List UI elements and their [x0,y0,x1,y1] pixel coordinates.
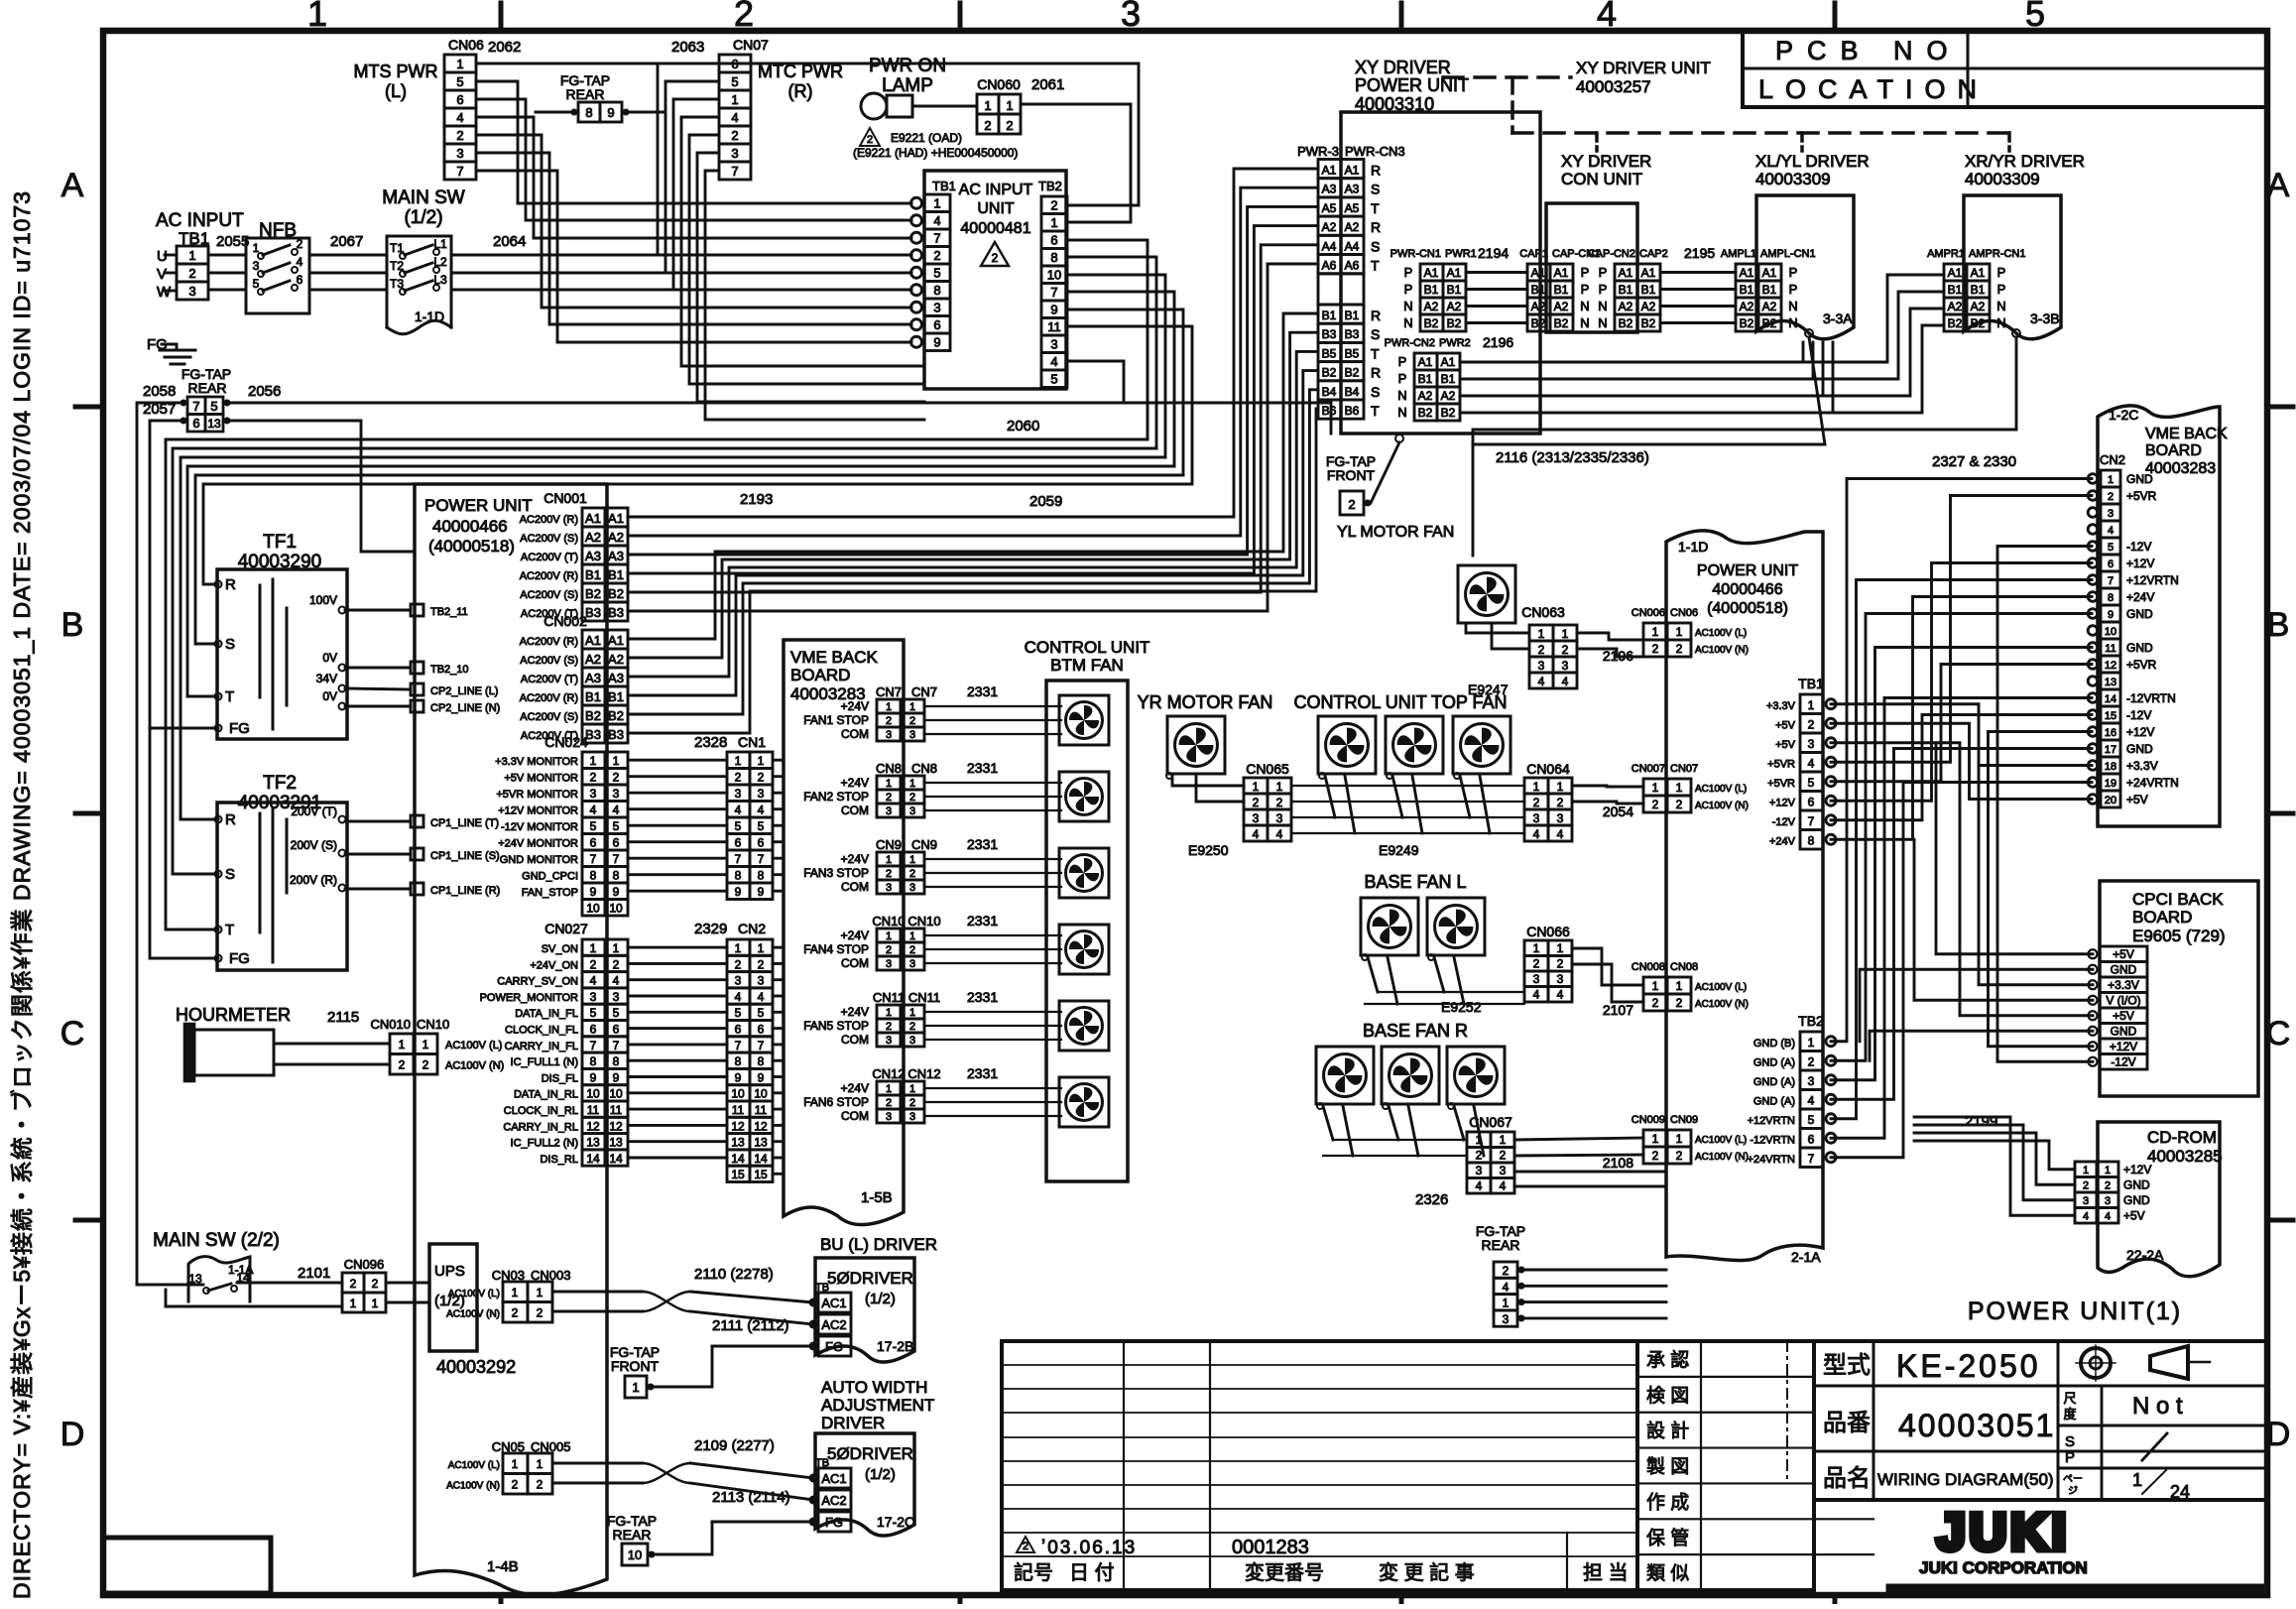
svg-text:CN001: CN001 [544,490,587,506]
svg-text:N: N [1598,299,1607,313]
svg-text:TB2_11: TB2_11 [430,606,468,618]
svg-text:CP2_LINE (L): CP2_LINE (L) [430,685,498,697]
svg-text:CN065: CN065 [1246,761,1289,777]
svg-text:B2: B2 [1447,316,1462,330]
svg-text:1: 1 [1253,780,1260,794]
svg-text:3: 3 [2108,508,2114,520]
svg-text:T: T [1371,345,1380,361]
svg-text:CN10: CN10 [417,1017,449,1032]
svg-text:A: A [61,167,84,204]
svg-text:3: 3 [2105,1195,2111,1207]
svg-text:UPS: UPS [434,1263,465,1280]
svg-text:2: 2 [886,944,892,956]
svg-text:3: 3 [1562,659,1569,673]
svg-text:9: 9 [758,1070,765,1084]
svg-text:3: 3 [758,787,765,801]
svg-text:COM: COM [841,1109,869,1123]
svg-text:10: 10 [586,902,600,916]
svg-text:B2: B2 [1345,366,1360,380]
svg-text:CAP1: CAP1 [1519,248,1548,260]
svg-text:3: 3 [1503,1312,1510,1326]
svg-text:B1: B1 [1345,309,1360,322]
svg-text:記号: 記号 [1014,1561,1053,1584]
svg-text:+24VRTN: +24VRTN [1748,1154,1795,1166]
svg-text:A2: A2 [1762,300,1777,313]
svg-text:-12V: -12V [2111,1055,2135,1069]
svg-text:A1: A1 [585,511,601,526]
svg-text:+12VRTN: +12VRTN [2126,573,2179,587]
svg-text:2: 2 [590,771,597,785]
svg-text:3: 3 [731,146,738,161]
svg-text:2: 2 [933,248,940,263]
svg-text:AMPR-CN1: AMPR-CN1 [1969,248,2025,260]
svg-text:A2: A2 [1424,300,1439,313]
svg-text:B: B [2267,606,2290,644]
svg-text:型式: 型式 [1823,1352,1871,1379]
svg-text:3: 3 [1533,811,1540,825]
svg-text:1: 1 [933,196,940,211]
svg-text:9: 9 [735,1070,742,1084]
svg-text:B1: B1 [1641,283,1656,297]
svg-text:4: 4 [735,990,742,1004]
svg-text:13: 13 [586,1136,600,1150]
svg-text:VME BACK: VME BACK [2145,426,2228,442]
svg-text:AC1: AC1 [821,1296,846,1310]
svg-text:WIRING DIAGRAM(50): WIRING DIAGRAM(50) [1877,1470,2054,1489]
svg-text:(1/2): (1/2) [404,207,442,228]
svg-text:16: 16 [2105,727,2116,739]
svg-text:AC200V (R): AC200V (R) [520,692,578,704]
svg-text:+5V: +5V [2113,947,2134,961]
svg-text:P: P [1404,265,1413,280]
svg-text:3: 3 [1538,659,1545,673]
svg-text:1: 1 [1676,781,1683,795]
svg-text:2060: 2060 [1007,418,1039,434]
svg-text:3: 3 [590,787,597,801]
svg-text:8: 8 [735,869,742,883]
svg-text:40003285: 40003285 [2147,1147,2223,1166]
svg-text:TF1: TF1 [263,532,297,553]
svg-text:AC INPUT: AC INPUT [156,210,244,231]
svg-text:R: R [1371,308,1381,323]
svg-text:+5V: +5V [1775,739,1796,751]
svg-text:1: 1 [886,854,892,866]
svg-text:11: 11 [587,1103,600,1117]
svg-text:3: 3 [1557,811,1564,825]
svg-text:T: T [225,688,234,705]
svg-text:2: 2 [735,957,742,971]
svg-text:P: P [1398,354,1407,369]
svg-text:5: 5 [210,399,217,414]
svg-text:2: 2 [1652,1149,1659,1163]
svg-text:IC_FULL1 (N): IC_FULL1 (N) [511,1056,578,1068]
svg-text:34V: 34V [316,672,337,685]
svg-text:GND: GND [2126,472,2153,486]
svg-text:2056: 2056 [248,383,281,400]
svg-text:A2: A2 [585,530,601,545]
svg-text:E9221 (OAD): E9221 (OAD) [891,131,962,145]
svg-text:6: 6 [613,1023,620,1037]
svg-text:1: 1 [537,1457,544,1471]
svg-text:V: V [157,266,167,283]
svg-text:9: 9 [607,105,614,120]
svg-text:2: 2 [1652,642,1659,656]
svg-text:2: 2 [423,1058,429,1072]
svg-text:8: 8 [1808,834,1815,848]
svg-text:D: D [2266,1416,2291,1453]
svg-text:2: 2 [1006,118,1013,133]
svg-text:A2: A2 [1441,389,1456,403]
svg-text:B2: B2 [1641,316,1656,330]
svg-text:6: 6 [758,836,765,850]
svg-text:2062: 2062 [488,39,521,56]
svg-text:CN006: CN006 [1631,607,1665,619]
svg-text:作 成: 作 成 [1646,1491,1689,1513]
svg-text:3: 3 [1533,972,1540,986]
svg-text:3: 3 [1476,1164,1483,1177]
svg-text:CAP-CN2: CAP-CN2 [1588,248,1635,260]
svg-text:9: 9 [2108,609,2114,621]
svg-text:2: 2 [512,1478,519,1492]
svg-text:4: 4 [1253,827,1260,841]
svg-text:+5VR: +5VR [1767,778,1795,790]
svg-text:A2: A2 [608,530,624,545]
svg-text:FG: FG [229,950,250,967]
svg-text:+12V: +12V [1769,798,1796,809]
svg-text:CARRY_IN_RL: CARRY_IN_RL [503,1121,578,1133]
svg-text:1: 1 [613,754,620,768]
svg-text:12: 12 [754,1119,768,1133]
svg-text:(R): (R) [788,81,813,101]
svg-text:AC100V (N): AC100V (N) [1695,645,1749,656]
svg-text:T: T [225,922,234,938]
svg-text:PWR1: PWR1 [1445,248,1477,260]
svg-text:GND: GND [2111,963,2137,977]
svg-text:3: 3 [1276,811,1283,825]
svg-text:A2: A2 [585,652,601,667]
svg-text:+12V: +12V [2110,1040,2137,1053]
svg-text:2: 2 [886,792,892,804]
svg-text:3: 3 [909,958,915,970]
svg-text:8: 8 [613,1054,620,1068]
svg-text:2: 2 [909,944,915,956]
svg-text:PCB NO: PCB NO [1775,36,1962,65]
svg-text:6: 6 [590,1023,597,1037]
svg-text:CN002: CN002 [544,613,587,629]
svg-text:5: 5 [2108,542,2114,554]
svg-text:A2: A2 [1447,300,1462,313]
svg-text:CARRY_IN_FL: CARRY_IN_FL [505,1041,578,1052]
svg-text:TB2_10: TB2_10 [430,664,469,676]
svg-text:7: 7 [456,164,463,179]
svg-text:40003257: 40003257 [1576,77,1651,96]
svg-text:P: P [1398,371,1407,386]
svg-text:A3: A3 [585,549,601,563]
svg-text:AC100V (N): AC100V (N) [1695,801,1749,811]
svg-text:AC100V (L): AC100V (L) [448,1289,500,1300]
svg-text:AC100V (L): AC100V (L) [1695,982,1747,993]
svg-text:GND_CPCI: GND_CPCI [522,871,578,883]
svg-text:2: 2 [1533,796,1540,809]
svg-text:8: 8 [758,869,765,883]
svg-text:CN8: CN8 [911,761,937,776]
svg-text:AC100V (N): AC100V (N) [1695,1152,1749,1163]
svg-text:3: 3 [1808,737,1815,751]
svg-text:1: 1 [758,941,765,955]
svg-text:5: 5 [590,1006,597,1020]
svg-text:CONTROL UNIT: CONTROL UNIT [1025,638,1150,657]
svg-text:B1: B1 [608,689,624,704]
svg-text:7: 7 [590,1039,597,1052]
svg-text:3: 3 [886,882,892,894]
svg-text:-12VRTN: -12VRTN [1750,1135,1795,1147]
svg-text:13: 13 [2105,677,2116,688]
svg-text:(1/2): (1/2) [865,1291,896,1307]
svg-text:2: 2 [1557,796,1564,809]
svg-text:C: C [2266,1015,2291,1052]
svg-text:17-2C: 17-2C [877,1514,914,1530]
svg-text:5: 5 [2025,0,2045,34]
svg-text:B5: B5 [1345,346,1360,360]
svg-text:CN027: CN027 [544,921,588,936]
svg-text:4: 4 [1597,0,1617,34]
svg-text:CN07: CN07 [1670,763,1698,775]
svg-text:14: 14 [609,1152,623,1166]
svg-text:15: 15 [731,1168,745,1181]
svg-text:6: 6 [2108,558,2114,570]
svg-text:24: 24 [2170,1482,2190,1502]
svg-text:3: 3 [735,787,742,801]
svg-text:GND: GND [2123,1178,2150,1192]
svg-text:B1: B1 [1619,283,1633,297]
svg-text:VME BACK: VME BACK [790,648,879,667]
svg-text:2194: 2194 [1478,245,1509,261]
svg-text:1: 1 [886,1007,892,1019]
svg-text:D: D [60,1416,85,1453]
svg-text:A3: A3 [1345,183,1360,196]
svg-text:MAIN SW (2/2): MAIN SW (2/2) [153,1230,280,1251]
svg-text:1: 1 [2083,1165,2089,1176]
svg-text:CN9: CN9 [911,837,937,852]
svg-text:N: N [1397,405,1406,420]
svg-text:2327 & 2330: 2327 & 2330 [1932,453,2016,470]
svg-text:2: 2 [734,0,754,34]
svg-text:CN060: CN060 [977,76,1021,92]
svg-text:検 図: 検 図 [1646,1385,1689,1407]
svg-text:R: R [225,576,236,593]
svg-text:9: 9 [735,885,742,899]
svg-text:2: 2 [350,1277,357,1291]
svg-text:CN024: CN024 [544,734,588,750]
svg-text:ペー: ペー [2063,1474,2083,1485]
svg-text:DIS_FL: DIS_FL [542,1072,578,1084]
svg-text:1: 1 [909,1007,915,1019]
svg-text:12: 12 [2105,660,2116,672]
svg-text:R: R [1371,163,1381,179]
svg-text:1: 1 [512,1457,519,1471]
svg-text:CN1: CN1 [738,734,766,750]
svg-text:PWR-CN3: PWR-CN3 [1345,144,1405,159]
svg-text:2: 2 [613,957,620,971]
svg-text:6: 6 [933,317,940,332]
svg-text:4: 4 [1808,1094,1815,1108]
svg-text:HOURMETER: HOURMETER [176,1005,291,1025]
svg-text:S: S [225,866,235,883]
svg-text:B2: B2 [1322,366,1337,380]
svg-text:4: 4 [1557,988,1564,1002]
svg-text:AC200V (S): AC200V (S) [520,533,578,545]
svg-text:T: T [1371,258,1380,274]
svg-text:REAR: REAR [1482,1237,1520,1253]
svg-text:1: 1 [1652,781,1659,795]
svg-text:+24V: +24V [841,699,869,713]
svg-text:A1: A1 [608,633,624,648]
svg-text:AC2: AC2 [821,1493,846,1508]
svg-text:N: N [1580,299,1589,313]
svg-text:POWER UNIT(1): POWER UNIT(1) [1968,1298,2182,1325]
svg-text:承 認: 承 認 [1646,1349,1689,1371]
svg-text:7: 7 [933,231,940,246]
svg-text:4: 4 [1562,675,1569,688]
svg-text:保 管: 保 管 [1646,1527,1689,1548]
svg-text:2054: 2054 [1603,804,1633,819]
svg-text:1: 1 [512,1286,519,1300]
svg-text:AC100V (L): AC100V (L) [1695,1135,1747,1146]
svg-text:1: 1 [1533,941,1540,955]
svg-text:CP1_LINE (S): CP1_LINE (S) [430,850,500,862]
svg-text:1: 1 [1676,1132,1683,1146]
svg-text:1: 1 [984,98,991,113]
svg-text:B1: B1 [1762,283,1777,297]
svg-text:6: 6 [297,273,303,287]
svg-text:ジ: ジ [2068,1486,2078,1497]
svg-text:2107: 2107 [1603,1002,1633,1018]
svg-text:+3.3V: +3.3V [2108,978,2139,992]
svg-text:8: 8 [1050,250,1057,265]
svg-text:2: 2 [735,771,742,785]
svg-text:2: 2 [399,1058,406,1072]
svg-text:7: 7 [2108,575,2114,587]
svg-text:2: 2 [1348,497,1355,512]
svg-text:13: 13 [207,417,221,431]
svg-text:2: 2 [297,237,303,251]
svg-text:2331: 2331 [967,760,998,776]
svg-text:REAR: REAR [613,1527,652,1543]
svg-text:2: 2 [1276,796,1283,809]
svg-text:AUTO WIDTH: AUTO WIDTH [821,1378,927,1397]
svg-text:1-4B: 1-4B [487,1558,519,1575]
svg-text:3-3B: 3-3B [2030,310,2060,326]
svg-text:+5VR MONITOR: +5VR MONITOR [496,789,578,801]
svg-text:GND: GND [2126,641,2153,655]
svg-text:4: 4 [613,804,620,817]
svg-text:DIS_RL: DIS_RL [540,1154,578,1166]
svg-text:B: B [61,606,84,644]
svg-text:-12V: -12V [2126,540,2151,554]
svg-text:N: N [1580,315,1589,330]
svg-text:(40000518): (40000518) [428,537,515,556]
svg-text:3: 3 [1808,1074,1815,1088]
svg-text:10: 10 [1047,268,1061,283]
svg-text:PWR2: PWR2 [1439,337,1471,349]
svg-text:2: 2 [613,771,620,785]
svg-text:+5V: +5V [2123,1209,2145,1223]
svg-text:XY DRIVER: XY DRIVER [1561,152,1651,171]
svg-text:2: 2 [886,715,892,727]
svg-text:2: 2 [1533,957,1540,971]
svg-text:2: 2 [1023,1541,1028,1552]
svg-text:FAN2 STOP: FAN2 STOP [803,790,869,804]
svg-text:R: R [1371,219,1381,235]
svg-text:SV_ON: SV_ON [542,943,578,955]
svg-text:CP2_LINE (N): CP2_LINE (N) [430,702,500,714]
svg-text:BOARD: BOARD [790,666,850,684]
svg-text:B1: B1 [1554,283,1569,297]
svg-text:3: 3 [909,1111,915,1123]
svg-text:MTC PWR: MTC PWR [758,62,843,81]
svg-text:6: 6 [456,92,463,107]
svg-text:7: 7 [735,852,742,866]
svg-text:AMPL1: AMPL1 [1721,248,1756,260]
svg-text:1: 1 [1006,98,1013,113]
svg-text:11: 11 [1047,319,1061,334]
svg-text:CP1_LINE (T): CP1_LINE (T) [430,817,499,829]
svg-text:B3: B3 [585,605,601,620]
svg-text:3: 3 [1557,972,1564,986]
svg-text:B2: B2 [1424,316,1439,330]
svg-text:P: P [1599,265,1608,280]
svg-text:R: R [1371,365,1381,381]
svg-text:P: P [1581,282,1590,297]
svg-text:T: T [1371,200,1380,216]
svg-text:XY DRIVER UNIT: XY DRIVER UNIT [1576,59,1711,77]
svg-text:1: 1 [632,1380,639,1395]
svg-text:TB1: TB1 [1798,676,1824,691]
svg-text:3: 3 [886,958,892,970]
svg-text:4: 4 [297,255,303,269]
svg-text:13: 13 [609,1136,623,1150]
svg-text:A2: A2 [1948,300,1963,313]
svg-text:+3.3V: +3.3V [2126,759,2158,773]
svg-text:AC100V (N): AC100V (N) [445,1060,504,1072]
svg-text:2: 2 [984,118,991,133]
svg-text:3: 3 [188,284,195,299]
svg-text:B2: B2 [1554,316,1569,330]
svg-text:1-2C: 1-2C [2109,407,2138,423]
svg-text:3-3A: 3-3A [1823,310,1853,326]
svg-text:2: 2 [1652,996,1659,1010]
svg-text:1: 1 [1557,780,1564,794]
svg-text:9: 9 [933,335,940,350]
svg-text:2116 (2313/2335/2336): 2116 (2313/2335/2336) [1496,449,1649,466]
svg-text:40003051: 40003051 [1898,1408,2055,1443]
svg-text:3: 3 [909,1035,915,1047]
svg-text:5: 5 [1808,1113,1815,1127]
svg-text:9: 9 [590,885,597,899]
svg-text:4: 4 [731,110,738,125]
svg-text:B4: B4 [1322,385,1337,399]
svg-text:S: S [1371,238,1380,254]
svg-text:15: 15 [2105,710,2116,722]
svg-text:品名: 品名 [1823,1465,1871,1492]
svg-text:1: 1 [590,754,597,768]
svg-text:4: 4 [758,804,765,817]
svg-text:GND (A): GND (A) [1753,1057,1795,1069]
svg-text:1: 1 [1050,215,1057,230]
svg-text:AMPL-CN1: AMPL-CN1 [1760,248,1816,260]
svg-text:品番: 品番 [1823,1410,1871,1436]
svg-text:+24V MONITOR: +24V MONITOR [498,838,578,850]
